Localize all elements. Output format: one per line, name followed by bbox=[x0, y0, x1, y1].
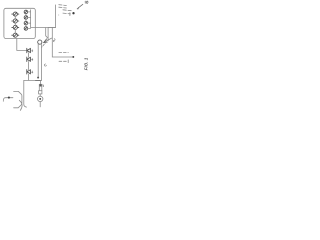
dashed media path upper bbox=[59, 51, 68, 53]
pump P2 bbox=[12, 19, 19, 23]
nip dot bbox=[72, 12, 74, 14]
leader arrow 10 bbox=[78, 4, 83, 8]
wire roller down bbox=[39, 102, 41, 107]
pendulum damper block bbox=[39, 84, 42, 86]
feed line bbox=[3, 98, 13, 102]
roller axle dot bbox=[39, 98, 41, 100]
wire bus bottom bbox=[24, 79, 42, 81]
check valve S1 bbox=[27, 48, 31, 52]
label 2 tick bbox=[43, 85, 45, 87]
dashed web B2 bbox=[63, 12, 71, 15]
wire stem left bbox=[37, 44, 39, 77]
leader arrowhead bbox=[77, 7, 79, 9]
label 8 bbox=[53, 39, 55, 42]
pendulum rod bbox=[39, 84, 42, 91]
tick end bbox=[67, 60, 69, 63]
wire pendulum to roller bbox=[39, 94, 41, 96]
drum D1 bbox=[14, 91, 22, 107]
valve V1 bbox=[24, 10, 28, 14]
feed nip dot bbox=[8, 97, 10, 99]
pump P4 bbox=[12, 33, 19, 37]
wire long drop with hook bbox=[24, 80, 27, 107]
wire stubs to bus bbox=[28, 12, 31, 29]
valve V3 bbox=[24, 21, 28, 25]
pointer arrow mid bbox=[45, 38, 52, 42]
pendulum link bbox=[40, 80, 42, 84]
label 4c bbox=[32, 71, 33, 73]
pointer arrowhead bbox=[44, 39, 48, 43]
dashed web A2 bbox=[59, 6, 67, 9]
valve V4 bbox=[24, 27, 28, 31]
wire S chain links bbox=[28, 53, 30, 81]
dashed web B1 bbox=[63, 9, 71, 12]
pendulum weight box bbox=[39, 91, 42, 94]
wire left chain links bbox=[14, 16, 16, 33]
valve V2 bbox=[24, 16, 28, 20]
label 4a bbox=[32, 50, 33, 52]
dashed web A1 bbox=[59, 4, 67, 7]
check valve S2 bbox=[27, 57, 31, 61]
wire stem right bbox=[40, 44, 42, 80]
roller R1 bbox=[38, 96, 43, 101]
bus dark segment bbox=[36, 79, 42, 81]
svg-text:FIG. 1: FIG. 1 bbox=[84, 57, 89, 70]
label 10 bbox=[85, 1, 88, 3]
pump P3 bbox=[12, 25, 19, 29]
node dot stem bbox=[37, 77, 39, 79]
dashed leader to sensor bbox=[42, 42, 47, 47]
tick nip bbox=[69, 13, 71, 16]
label 6 bbox=[45, 64, 47, 66]
label 4b bbox=[32, 58, 33, 60]
faint node bbox=[58, 15, 59, 16]
check valve S3 bbox=[27, 70, 31, 74]
pump P1 bbox=[12, 12, 19, 16]
enclosure box U1 (pump/valve unit) bbox=[4, 8, 35, 38]
media line end dot bbox=[72, 56, 74, 58]
wire corner top-right bbox=[48, 5, 73, 57]
sensor head circle C1 bbox=[38, 40, 42, 44]
sheet guide arc bbox=[19, 100, 22, 110]
wire W2 drop from box bottom bbox=[17, 39, 27, 51]
wire inner bus bbox=[30, 10, 32, 28]
dashed media path lower bbox=[59, 60, 68, 62]
wire W1 box to node bbox=[31, 28, 56, 39]
wire right chain links bbox=[25, 14, 27, 27]
